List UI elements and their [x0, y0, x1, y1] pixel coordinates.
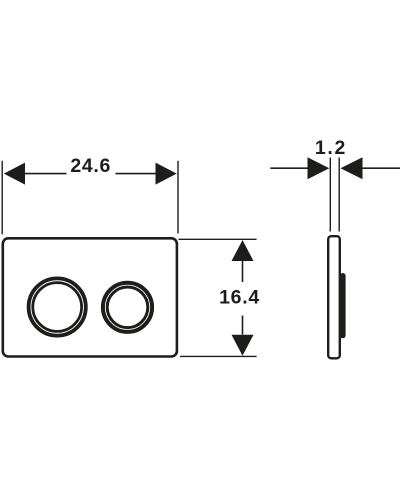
dimension 1.2 left tail line	[270, 167, 307, 169]
dimension 24.6 dimension line left segment	[25, 173, 67, 175]
front view plate outline	[3, 238, 177, 356]
dimension 16.4 up arrow	[232, 240, 254, 261]
svg-text:24.6: 24.6	[70, 155, 111, 177]
dimension 24.6 left arrow	[4, 163, 25, 185]
dimension 16.4 bottom tick line	[180, 355, 257, 357]
dimension 16.4 down arrow	[232, 335, 254, 356]
side view plate outline	[328, 236, 340, 358]
svg-text:16.4: 16.4	[219, 287, 260, 309]
dimension 24.6 right arrow	[156, 163, 177, 185]
dimension 1.2 right extension line	[338, 158, 340, 232]
large flush button outer ring	[29, 278, 86, 335]
dimension 1.2 left arrow	[308, 157, 330, 179]
dimension 1.2 right arrow	[341, 157, 363, 179]
dimension 16.4 top tick line	[179, 238, 257, 240]
small flush button outer ring	[103, 283, 152, 332]
small flush button inner ring	[107, 287, 148, 328]
dimension 1.2 right tail line	[362, 167, 400, 169]
svg-text:1.2: 1.2	[315, 137, 347, 159]
large flush button inner ring	[33, 283, 82, 332]
dimension 24.6 right extension line	[177, 161, 179, 234]
dimension 16.4 dimension line upper segment	[242, 260, 244, 282]
dimension 16.4 dimension line lower segment	[242, 316, 244, 335]
side view button bump	[340, 273, 346, 338]
dimension 24.6 dimension line right segment	[116, 173, 157, 175]
dimension 24.6 left extension line	[1, 161, 3, 235]
dimension 1.2 left extension line	[329, 158, 331, 232]
